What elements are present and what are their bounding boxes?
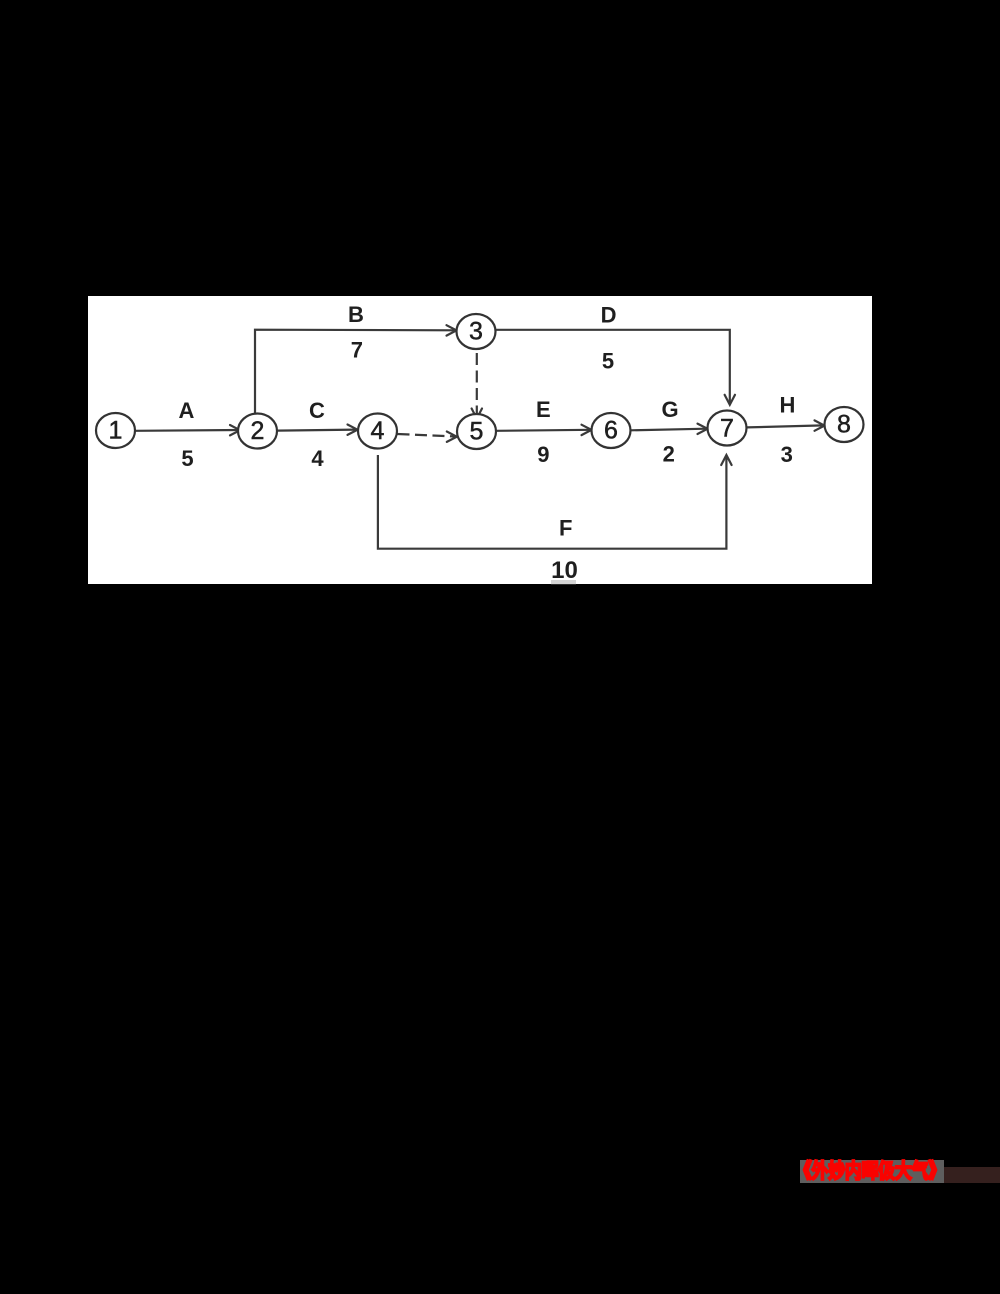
svg-text:8: 8 bbox=[837, 411, 851, 439]
svg-text:3: 3 bbox=[781, 442, 793, 467]
wire H: node7 to node8 bbox=[747, 425, 824, 427]
wire D: node3 right then down to node7 bbox=[496, 330, 730, 404]
wire G: node6 to node7 bbox=[631, 429, 707, 431]
arrowhead dummy 4-5 bbox=[447, 432, 457, 442]
dummy wire 4 to 5 (dashed) bbox=[398, 434, 457, 437]
watermark dark strip bbox=[944, 1167, 1000, 1183]
wire F: node4 down, right, up to node7 bbox=[378, 455, 727, 549]
svg-text:10: 10 bbox=[551, 557, 578, 584]
svg-text:H: H bbox=[780, 393, 796, 418]
svg-text:4: 4 bbox=[311, 446, 324, 471]
node 4 bbox=[358, 414, 397, 449]
svg-text:6: 6 bbox=[604, 417, 618, 445]
svg-text:《外妙内晖伋大气》: 《外妙内晖伋大气》 bbox=[795, 1159, 945, 1183]
gray caret under 10 bbox=[551, 580, 576, 584]
wire C: node2 to node4 bbox=[278, 430, 357, 431]
wire A: node1 to node2 bbox=[136, 429, 240, 432]
node 5 bbox=[457, 414, 496, 449]
arrowhead B bbox=[447, 325, 457, 335]
dummy wire 3 to 5 (dashed) bbox=[476, 353, 478, 418]
svg-text:G: G bbox=[662, 397, 679, 422]
svg-text:F: F bbox=[559, 516, 572, 541]
svg-text:2: 2 bbox=[663, 442, 675, 467]
node 1 bbox=[96, 413, 135, 448]
wire E: node5 to node6 bbox=[497, 430, 591, 431]
arrowhead dummy 3-5 (down) bbox=[472, 409, 482, 419]
node 3 bbox=[457, 314, 496, 349]
arrowhead D (down) bbox=[725, 395, 735, 405]
svg-text:9: 9 bbox=[537, 442, 549, 467]
arrowhead H bbox=[815, 420, 825, 430]
arrowhead F (up) bbox=[721, 455, 731, 465]
svg-text:5: 5 bbox=[181, 446, 193, 471]
svg-text:4: 4 bbox=[371, 417, 385, 445]
node 8 bbox=[825, 407, 864, 442]
white diagram panel bbox=[88, 296, 872, 584]
arrowhead A bbox=[230, 425, 240, 435]
svg-text:3: 3 bbox=[469, 318, 483, 346]
svg-text:B: B bbox=[348, 302, 364, 327]
svg-text:7: 7 bbox=[351, 338, 363, 363]
svg-text:5: 5 bbox=[470, 418, 484, 446]
svg-text:E: E bbox=[536, 397, 551, 422]
svg-text:1: 1 bbox=[109, 417, 123, 445]
svg-text:D: D bbox=[601, 303, 617, 328]
arrowhead C bbox=[348, 425, 358, 435]
watermark bar bbox=[800, 1160, 944, 1183]
node 2 bbox=[238, 414, 277, 449]
node 6 bbox=[592, 413, 631, 448]
svg-text:A: A bbox=[179, 398, 195, 423]
svg-text:7: 7 bbox=[720, 414, 734, 442]
arrowheads drawn separately bbox=[230, 325, 825, 465]
arrowhead E bbox=[582, 425, 592, 435]
wire B: node2 up and right to node3 bbox=[255, 330, 456, 414]
svg-text:2: 2 bbox=[251, 417, 265, 445]
svg-text:C: C bbox=[309, 398, 325, 423]
arrowhead G bbox=[698, 424, 708, 434]
svg-text:5: 5 bbox=[602, 349, 614, 374]
node 7 bbox=[708, 411, 747, 446]
